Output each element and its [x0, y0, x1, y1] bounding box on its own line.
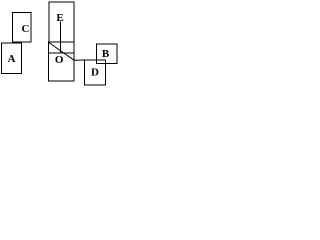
- svg-text:A: A: [8, 53, 16, 65]
- box D: [84, 60, 105, 85]
- svg-text:E: E: [56, 12, 63, 24]
- wire E to O: [60, 22, 62, 54]
- box O: [49, 42, 74, 81]
- svg-text:C: C: [22, 23, 30, 35]
- divider of box O: [49, 52, 74, 54]
- svg-text:O: O: [55, 54, 64, 66]
- box C: [13, 13, 32, 43]
- svg-text:D: D: [91, 67, 99, 79]
- svg-text:B: B: [102, 48, 110, 60]
- diagonal O to D: [49, 43, 74, 61]
- box A: [2, 43, 22, 74]
- connector O to box D: [74, 59, 85, 61]
- box E (open bottom, sides run down to box O): [49, 2, 74, 42]
- box B: [97, 44, 118, 64]
